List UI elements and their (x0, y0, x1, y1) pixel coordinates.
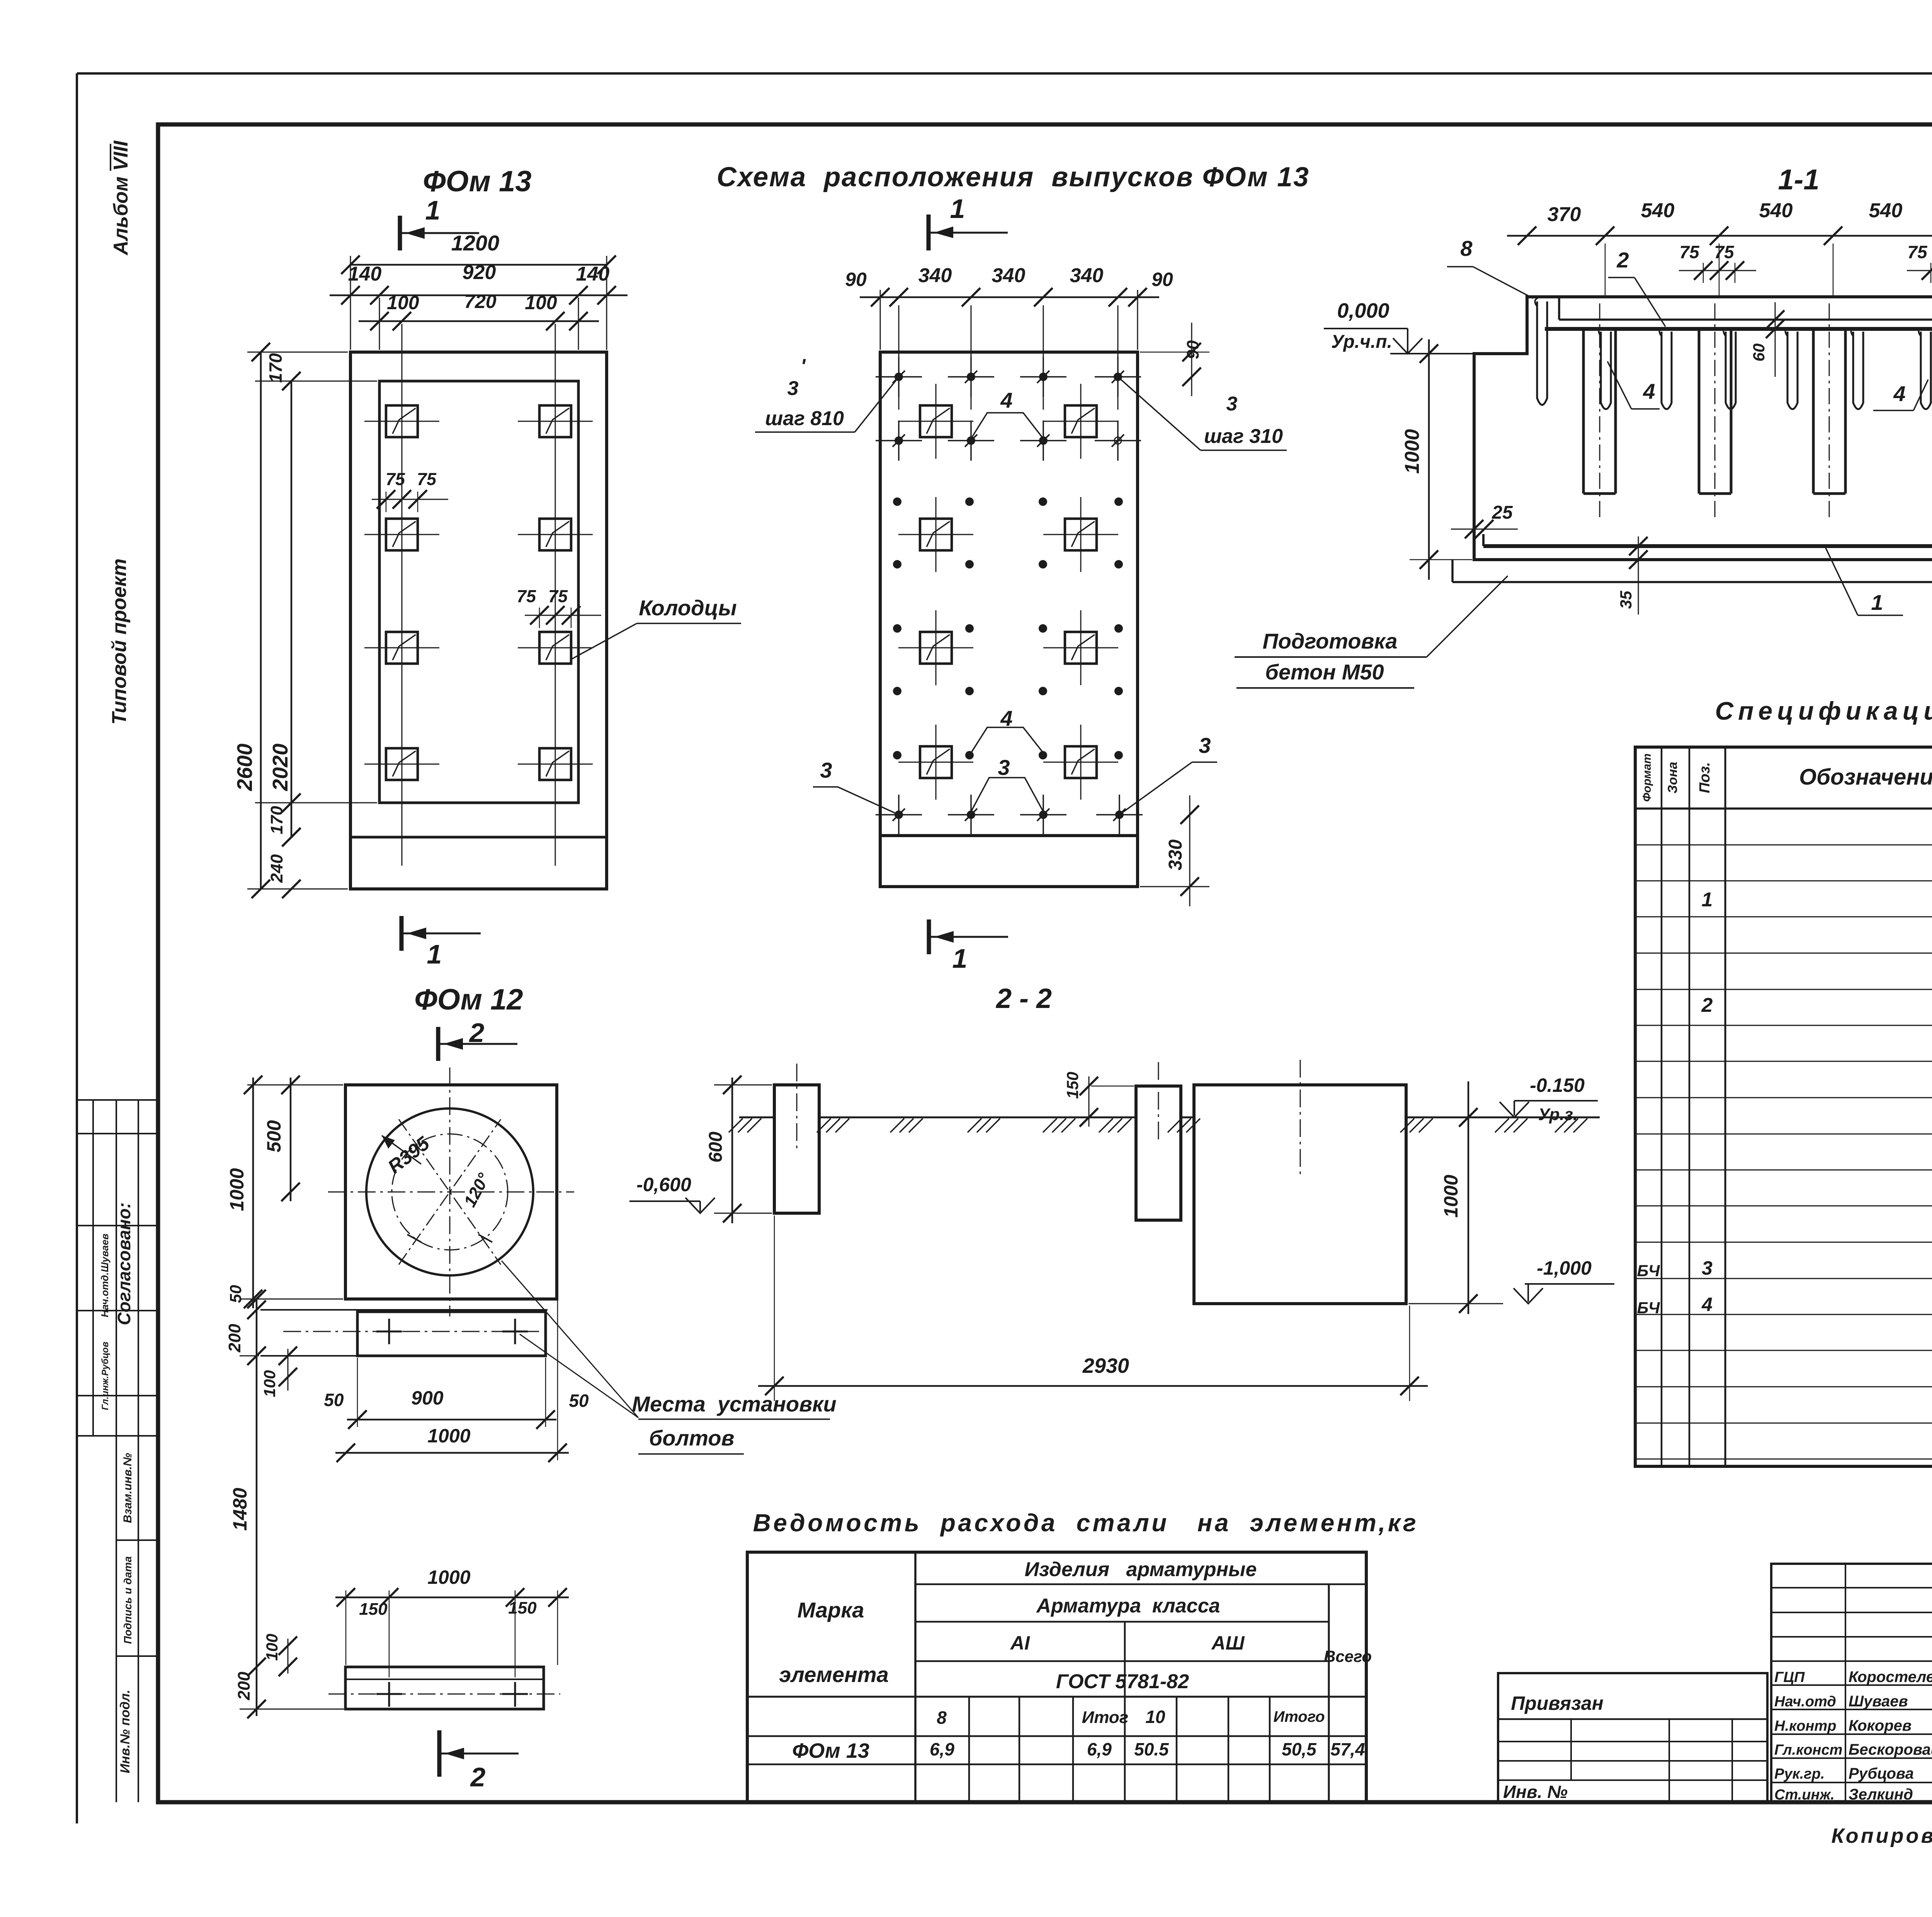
svg-text:75: 75 (1679, 242, 1700, 262)
pedestal well 3 (section) (1813, 303, 1845, 519)
dimension 150 (middle pier) (1063, 1072, 1134, 1127)
big block FOm13 (1194, 1085, 1406, 1304)
well square schema row2 col1 (898, 497, 973, 572)
svg-text:4: 4 (1643, 379, 1655, 403)
svg-text:50.5: 50.5 (1134, 1739, 1169, 1759)
label 4 with leader (right) (1873, 380, 1928, 410)
dimension 90 (schema right) (1140, 323, 1209, 396)
svg-text:Итого: Итого (1273, 1708, 1325, 1725)
plan inner rectangle (379, 381, 578, 803)
svg-text:ФОм 13: ФОм 13 (423, 165, 531, 198)
label 4 with bracket (lower) (971, 706, 1043, 753)
dimension 75/75 (right pair) (1907, 242, 1932, 283)
label 1 with leader (bottom mesh) (1825, 547, 1903, 615)
svg-text:8: 8 (937, 1708, 947, 1728)
svg-text:бетон М50: бетон М50 (1265, 660, 1384, 684)
svg-text:ФОм 12: ФОм 12 (414, 983, 523, 1016)
svg-text:Нач.отд.Шуваев: Нач.отд.Шуваев (99, 1233, 111, 1317)
svg-text:Согласовано:: Согласовано: (114, 1202, 134, 1325)
svg-text:100: 100 (387, 292, 419, 313)
svg-text:Спецификация: Спецификация (1715, 696, 1932, 725)
svg-text:Шуваев: Шуваев (1849, 1693, 1908, 1710)
dimension 100 (bottom bar upper) (263, 1634, 297, 1676)
spec item 2: mesh C 10AIII-200/100 1050x2350 (1701, 991, 1932, 1052)
FOm12 bottom bar view (328, 1667, 560, 1709)
well square plan13 row3 col2 (518, 610, 593, 685)
svg-text:2: 2 (1701, 994, 1713, 1016)
FOm12 anchor plate (side) (260, 1310, 548, 1356)
label 3&#39; шаг 810 (top-left leader) (755, 355, 899, 432)
svg-text:Инв. №: Инв. № (1503, 1782, 1568, 1802)
svg-text:-0,600: -0,600 (636, 1174, 691, 1195)
svg-text:240: 240 (267, 854, 286, 883)
dimension chain 370/540/540/540/370 (1507, 199, 1932, 296)
svg-text:75: 75 (386, 469, 405, 489)
label 3 with bracket (bottom middle) (971, 755, 1043, 812)
svg-text:2930: 2930 (1082, 1354, 1129, 1377)
svg-text:1000: 1000 (427, 1566, 470, 1588)
svg-text:АШ: АШ (1211, 1632, 1245, 1654)
plan FOm12 square (345, 1085, 557, 1299)
svg-text:1: 1 (425, 195, 440, 225)
svg-text:-1,000: -1,000 (1537, 1257, 1592, 1279)
pedestal well 1 (section) (1583, 303, 1616, 519)
dimension 2020 (left) (268, 372, 301, 846)
label 3 (bottom-left leader) (813, 758, 899, 815)
svg-text:2: 2 (1616, 248, 1629, 272)
svg-text:Ур.ч.п.: Ур.ч.п. (1331, 332, 1392, 352)
dimension 600 (2-2 left) (706, 1076, 772, 1223)
block: signature table (1771, 1564, 1932, 1803)
svg-text:Гл.инж.Рубцов: Гл.инж.Рубцов (100, 1342, 111, 1410)
schema bottom step line (880, 834, 1138, 837)
svg-text:Итог: Итог (1082, 1708, 1129, 1727)
section flag 1 (schema bottom) (929, 919, 1008, 974)
svg-text:Ведомость расхода стали на: Ведомость расхода стали на элемент,кг (753, 1509, 1419, 1537)
label 4 with leader (left) (1607, 361, 1660, 409)
block: Привязан table (1498, 1673, 1767, 1802)
svg-text:Поз.: Поз. (1697, 762, 1713, 793)
well square plan13 row2 col2 (518, 497, 593, 572)
svg-text:8: 8 (1460, 236, 1473, 260)
svg-text:2 - 2: 2 - 2 (995, 983, 1052, 1014)
well square plan13 row4 col1 (364, 727, 439, 802)
dimension 1000 (section left) (1401, 339, 1472, 580)
svg-text:Марка: Марка (798, 1598, 864, 1622)
svg-text:0,000: 0,000 (1337, 299, 1389, 322)
dimension 60 (mesh offset) (1750, 302, 1784, 377)
svg-text:2: 2 (469, 1018, 485, 1048)
svg-text:1000: 1000 (226, 1168, 248, 1211)
dimension 200 (bottom bar height) (235, 1672, 344, 1718)
svg-text:1480: 1480 (229, 1488, 251, 1531)
outlet dots field (893, 497, 1123, 759)
svg-text:1000: 1000 (1401, 429, 1423, 474)
dimension 35 (bottom) (1617, 536, 1648, 615)
svg-text:Инв.№ подл.: Инв.№ подл. (118, 1690, 133, 1774)
svg-text:ГЦП: ГЦП (1774, 1669, 1805, 1685)
rebar outlet hook 3 (left end) (1535, 298, 1547, 405)
svg-text:болтов: болтов (649, 1426, 735, 1450)
svg-text:Формат: Формат (1641, 753, 1653, 802)
svg-text:75: 75 (1907, 242, 1928, 262)
bolt circle (dash-dot) (392, 1134, 508, 1250)
svg-text:Схема расположения выпусков: Схема расположения выпусков ФОм 13 (717, 162, 1310, 192)
dimension 75/75 row2-left (372, 469, 448, 512)
svg-text:4: 4 (1893, 381, 1905, 406)
svg-text:900: 900 (411, 1387, 444, 1409)
outlet crosses row E (item 3 bottom) (876, 795, 1143, 835)
dimension 50 (small, above 200) (226, 1285, 266, 1319)
well square plan13 row4 col2 (518, 727, 593, 802)
dimension 200 (plate height) (225, 1324, 266, 1365)
well square plan13 row1 col1 (364, 384, 439, 459)
svg-text:330: 330 (1165, 839, 1186, 870)
svg-text:Ур.з.: Ур.з. (1538, 1105, 1578, 1124)
svg-text:Кокорев: Кокорев (1849, 1717, 1912, 1734)
svg-text:1200: 1200 (451, 231, 500, 255)
svg-text:Подпись и дата: Подпись и дата (122, 1556, 134, 1644)
section flag 1 (schema top) (927, 215, 931, 250)
outlet crosses row A (item 3 top) (876, 357, 1141, 397)
svg-text:Подготовка: Подготовка (1262, 629, 1397, 653)
level mark -0.150 Ур.з. (1500, 1074, 1598, 1124)
svg-text:57,4: 57,4 (1330, 1739, 1365, 1759)
section flag 2 (bottom) (439, 1730, 519, 1792)
margin stamp: Инв.№ / Подпись table (116, 1436, 158, 1802)
svg-text:6,9: 6,9 (1087, 1739, 1112, 1759)
plan outer rectangle (350, 352, 607, 889)
svg-text:6,9: 6,9 (930, 1739, 954, 1759)
svg-text:140: 140 (576, 263, 610, 285)
svg-text:Бескоровайн.: Бескоровайн. (1849, 1741, 1932, 1758)
svg-text:90: 90 (845, 269, 867, 290)
svg-text:Зелкинд: Зелкинд (1849, 1786, 1913, 1803)
svg-text:БЧ: БЧ (1637, 1262, 1660, 1280)
dimension chain 1200 (341, 231, 616, 350)
well square schema row1 col1 (898, 384, 973, 459)
ground line (739, 1117, 774, 1119)
section flag 2 (top) (436, 1027, 440, 1061)
svg-text:150: 150 (508, 1599, 537, 1617)
svg-text:Коростелев: Коростелев (1849, 1668, 1932, 1685)
top mesh C2 (1545, 327, 1932, 331)
svg-text:Альбом VIII: Альбом VIII (110, 140, 132, 256)
level mark 0,000 Ур.ч.п. (1324, 299, 1474, 354)
svg-text:Рук.гр.: Рук.гр. (1774, 1766, 1825, 1782)
svg-text:Типовой проект: Типовой проект (108, 558, 131, 725)
rebar outlet hook 4-5 (1851, 328, 1863, 409)
svg-text:-0.150: -0.150 (1530, 1074, 1585, 1096)
label 2 with leader (1608, 248, 1665, 327)
svg-text:1: 1 (427, 939, 442, 969)
svg-text:1000: 1000 (1440, 1175, 1462, 1217)
view: foundation plan FOm 12 (328, 983, 574, 1316)
svg-text:540: 540 (1641, 199, 1675, 222)
bottom mesh C1 (1483, 544, 1932, 548)
dimension 100 (below plate) (260, 1347, 297, 1397)
svg-text:340: 340 (992, 264, 1026, 287)
dimension 240,170 (bottom-left) (255, 793, 377, 898)
well square plan13 row1 col2 (518, 384, 593, 459)
svg-text:Места установки: Места установки (632, 1392, 836, 1416)
view: section 2-2 (729, 983, 1600, 1304)
svg-text:1000: 1000 (427, 1425, 470, 1447)
svg-text:Н.контр: Н.контр (1774, 1718, 1836, 1734)
well square schema row1 col2 (1043, 384, 1118, 459)
svg-text:ФОм 13: ФОм 13 (792, 1739, 869, 1762)
dimension 2930 (758, 1216, 1428, 1401)
well square plan13 row2 col1 (364, 497, 439, 572)
label 3 шаг 310 (top-right leader) (1118, 377, 1287, 450)
svg-text:2600: 2600 (233, 743, 257, 791)
spec item 3: l=580 (1637, 1257, 1932, 1281)
outlet column axes (899, 305, 1118, 410)
outlet crosses row B (item 4) (876, 421, 1141, 461)
svg-text:150: 150 (1063, 1072, 1082, 1099)
svg-text:БЧ: БЧ (1637, 1299, 1660, 1317)
well square schema row4 col1 (898, 725, 973, 800)
svg-text:ГОСТ 5781-82: ГОСТ 5781-82 (1056, 1670, 1189, 1693)
view: layout of outlets FOm 13 (schema) (717, 162, 1310, 887)
spec item 1: mesh C 10AIII-200/100 1050x2550 (1702, 884, 1932, 946)
dimension 1000/150/150 (bottom bar) (335, 1566, 569, 1677)
svg-text:Нач.отд: Нач.отд (1774, 1694, 1836, 1710)
svg-text:90: 90 (1151, 269, 1173, 290)
svg-text:шаг 310: шаг 310 (1204, 425, 1283, 448)
svg-text:Всего: Всего (1324, 1647, 1372, 1665)
center lines (328, 1192, 574, 1193)
подготовка (blinding layer) (1451, 560, 1454, 582)
label 3 (bottom-right leader) (1119, 733, 1217, 815)
left pier FOm12 (774, 1085, 819, 1213)
well square schema row3 col2 (1043, 610, 1118, 685)
svg-text:4: 4 (1701, 1294, 1713, 1315)
svg-text:120°: 120° (460, 1170, 493, 1210)
spec item 4: l=480 (1637, 1294, 1932, 1317)
well axes vertical (401, 324, 403, 866)
svg-text:920: 920 (463, 261, 496, 284)
svg-text:50: 50 (226, 1285, 245, 1303)
svg-text:540: 540 (1869, 199, 1903, 222)
well square plan13 row3 col1 (364, 610, 439, 685)
circle R395 (366, 1108, 533, 1275)
svg-text:Копировал: Алехина: Копировал: Алехина (1831, 1824, 1932, 1847)
well square schema row3 col1 (898, 610, 973, 685)
svg-text:1: 1 (1702, 889, 1713, 911)
svg-text:3: 3 (1226, 393, 1238, 415)
svg-text:3: 3 (820, 758, 832, 782)
plan step line (350, 836, 607, 839)
svg-text:60: 60 (1750, 344, 1768, 362)
vedomost texts (779, 1558, 1372, 1762)
rebar outlet hook 4-2 (1659, 328, 1672, 409)
svg-text:50,5: 50,5 (1282, 1739, 1317, 1759)
dimension 1000 (plate total) (335, 1301, 569, 1462)
margin text: Типовой проект (108, 558, 131, 725)
svg-text:25: 25 (1492, 502, 1513, 523)
dimension 500 (FOm12 left) (263, 1076, 300, 1201)
svg-text:100: 100 (263, 1634, 281, 1661)
svg-text:Зона: Зона (1665, 762, 1680, 793)
svg-text:370: 370 (1548, 203, 1581, 226)
svg-text:3: 3 (787, 377, 799, 400)
svg-text:АI: АI (1010, 1632, 1030, 1654)
bolt diagonals 120 deg (399, 1119, 501, 1265)
section flag 1 (top) (398, 216, 402, 250)
table: Спецификация фундаментов ФОм12, ФОм13 (1635, 696, 1932, 1466)
spec header texts (1641, 752, 1932, 802)
svg-text:Арматура класса: Арматура класса (1036, 1595, 1220, 1617)
svg-text:1: 1 (950, 194, 965, 224)
svg-text:75: 75 (548, 586, 568, 606)
level mark -0,600 (629, 1174, 715, 1213)
section 1-1 foundation body outline (1452, 297, 1932, 582)
svg-text:200: 200 (225, 1324, 244, 1353)
svg-text:Колодцы: Колодцы (639, 596, 736, 620)
dimension 330 (schema bottom right) (1140, 795, 1209, 906)
rebar outlet hook 4-1 (1599, 328, 1611, 409)
svg-text:1-1: 1-1 (1778, 163, 1820, 196)
dimension 1000 (FOm12 left) (226, 1076, 343, 1308)
pedestal well 2 (section) (1699, 303, 1731, 519)
svg-text:3: 3 (1702, 1257, 1713, 1279)
middle pier (1136, 1086, 1181, 1220)
dimension 1480 (FOm12 left) (229, 1290, 343, 1716)
table: Ведомость расхода стали (747, 1509, 1418, 1802)
well square schema row4 col2 (1043, 725, 1118, 800)
level mark -1,000 (2-2) (1408, 1257, 1614, 1304)
svg-text:340: 340 (1070, 264, 1104, 287)
svg-text:75: 75 (417, 469, 437, 489)
label Места установки болтов (502, 1261, 837, 1454)
svg-text:Ст.инж.: Ст.инж. (1774, 1787, 1835, 1803)
svg-text:340: 340 (918, 264, 952, 287)
svg-text:50: 50 (324, 1390, 344, 1410)
svg-text:35: 35 (1617, 591, 1635, 609)
svg-text:шаг 810: шаг 810 (765, 407, 844, 430)
svg-text:2020: 2020 (268, 743, 292, 791)
svg-text:элемента: элемента (779, 1662, 888, 1687)
svg-text:Привязан: Привязан (1511, 1692, 1604, 1714)
svg-text:50: 50 (569, 1391, 589, 1411)
top slab recess line (1559, 318, 1932, 321)
dimension 50/900/50 (324, 1358, 589, 1429)
label Подготовка бетон М50 with leader (1235, 576, 1508, 688)
svg-text:': ' (801, 355, 806, 378)
svg-text:600: 600 (706, 1132, 726, 1163)
margin stamp: Согласовано table (78, 1100, 158, 1436)
svg-text:170: 170 (265, 353, 286, 383)
margin text: Альбом VIII (110, 140, 132, 256)
dimension chain 90/340/340/340/90 (845, 264, 1173, 350)
view: section 1-1 (1778, 163, 1820, 196)
svg-text:3: 3 (998, 755, 1010, 780)
rebar outlet hook 4-4 (1785, 328, 1798, 409)
svg-text:Рубцова: Рубцова (1849, 1765, 1914, 1782)
note: Копировал Алехина (1831, 1824, 1932, 1847)
svg-text:4: 4 (1000, 388, 1012, 412)
dimension 2600 (left) (233, 343, 348, 898)
svg-text:1: 1 (1871, 590, 1883, 615)
svg-text:Обозначение: Обозначение (1799, 764, 1932, 790)
section flag 1 (bottom) (401, 916, 481, 969)
svg-text:720: 720 (464, 291, 497, 312)
svg-text:75: 75 (517, 586, 536, 606)
svg-text:200: 200 (235, 1672, 253, 1701)
dimension 25 (left) (1451, 502, 1518, 538)
label Колодцы with leader (571, 596, 741, 659)
well square schema row2 col2 (1043, 497, 1118, 572)
label 4 with bracket (upper) (971, 388, 1043, 439)
svg-text:3: 3 (1199, 733, 1211, 758)
ground hatching (729, 1119, 743, 1132)
bolt marks (388, 1319, 390, 1344)
svg-text:2: 2 (470, 1762, 486, 1792)
dimension chain 140/920/140 (330, 261, 628, 305)
svg-text:540: 540 (1759, 199, 1793, 222)
rebar outlet hook 4-3 (1723, 328, 1736, 409)
spec table grid (1635, 747, 1932, 1466)
svg-text:1: 1 (952, 943, 968, 974)
dimension 1000 (2-2 right) (1440, 1081, 1478, 1314)
dimension 75/75 (left pair) (1679, 242, 1756, 283)
dimension chain 100/720/100 (359, 291, 599, 350)
dimension 170 (top-left) (255, 353, 377, 383)
svg-text:150: 150 (359, 1600, 388, 1619)
svg-text:100: 100 (260, 1370, 279, 1397)
svg-text:500: 500 (263, 1120, 285, 1153)
svg-text:Взам.инв.№: Взам.инв.№ (121, 1453, 134, 1523)
dimension 75/75 row3-right (517, 586, 601, 628)
svg-text:10: 10 (1145, 1707, 1165, 1727)
svg-text:140: 140 (348, 263, 382, 285)
label 8 with leader (1447, 236, 1533, 298)
schema rectangle (880, 352, 1138, 887)
svg-text:Гл.конст: Гл.конст (1774, 1742, 1842, 1758)
svg-text:100: 100 (525, 292, 557, 313)
view: foundation plan FOm 13 (350, 165, 607, 889)
svg-text:75: 75 (1714, 242, 1735, 262)
svg-text:Изделия арматурные: Изделия арматурные (1025, 1558, 1257, 1581)
rebar outlet hook 4-6 (1918, 328, 1931, 409)
